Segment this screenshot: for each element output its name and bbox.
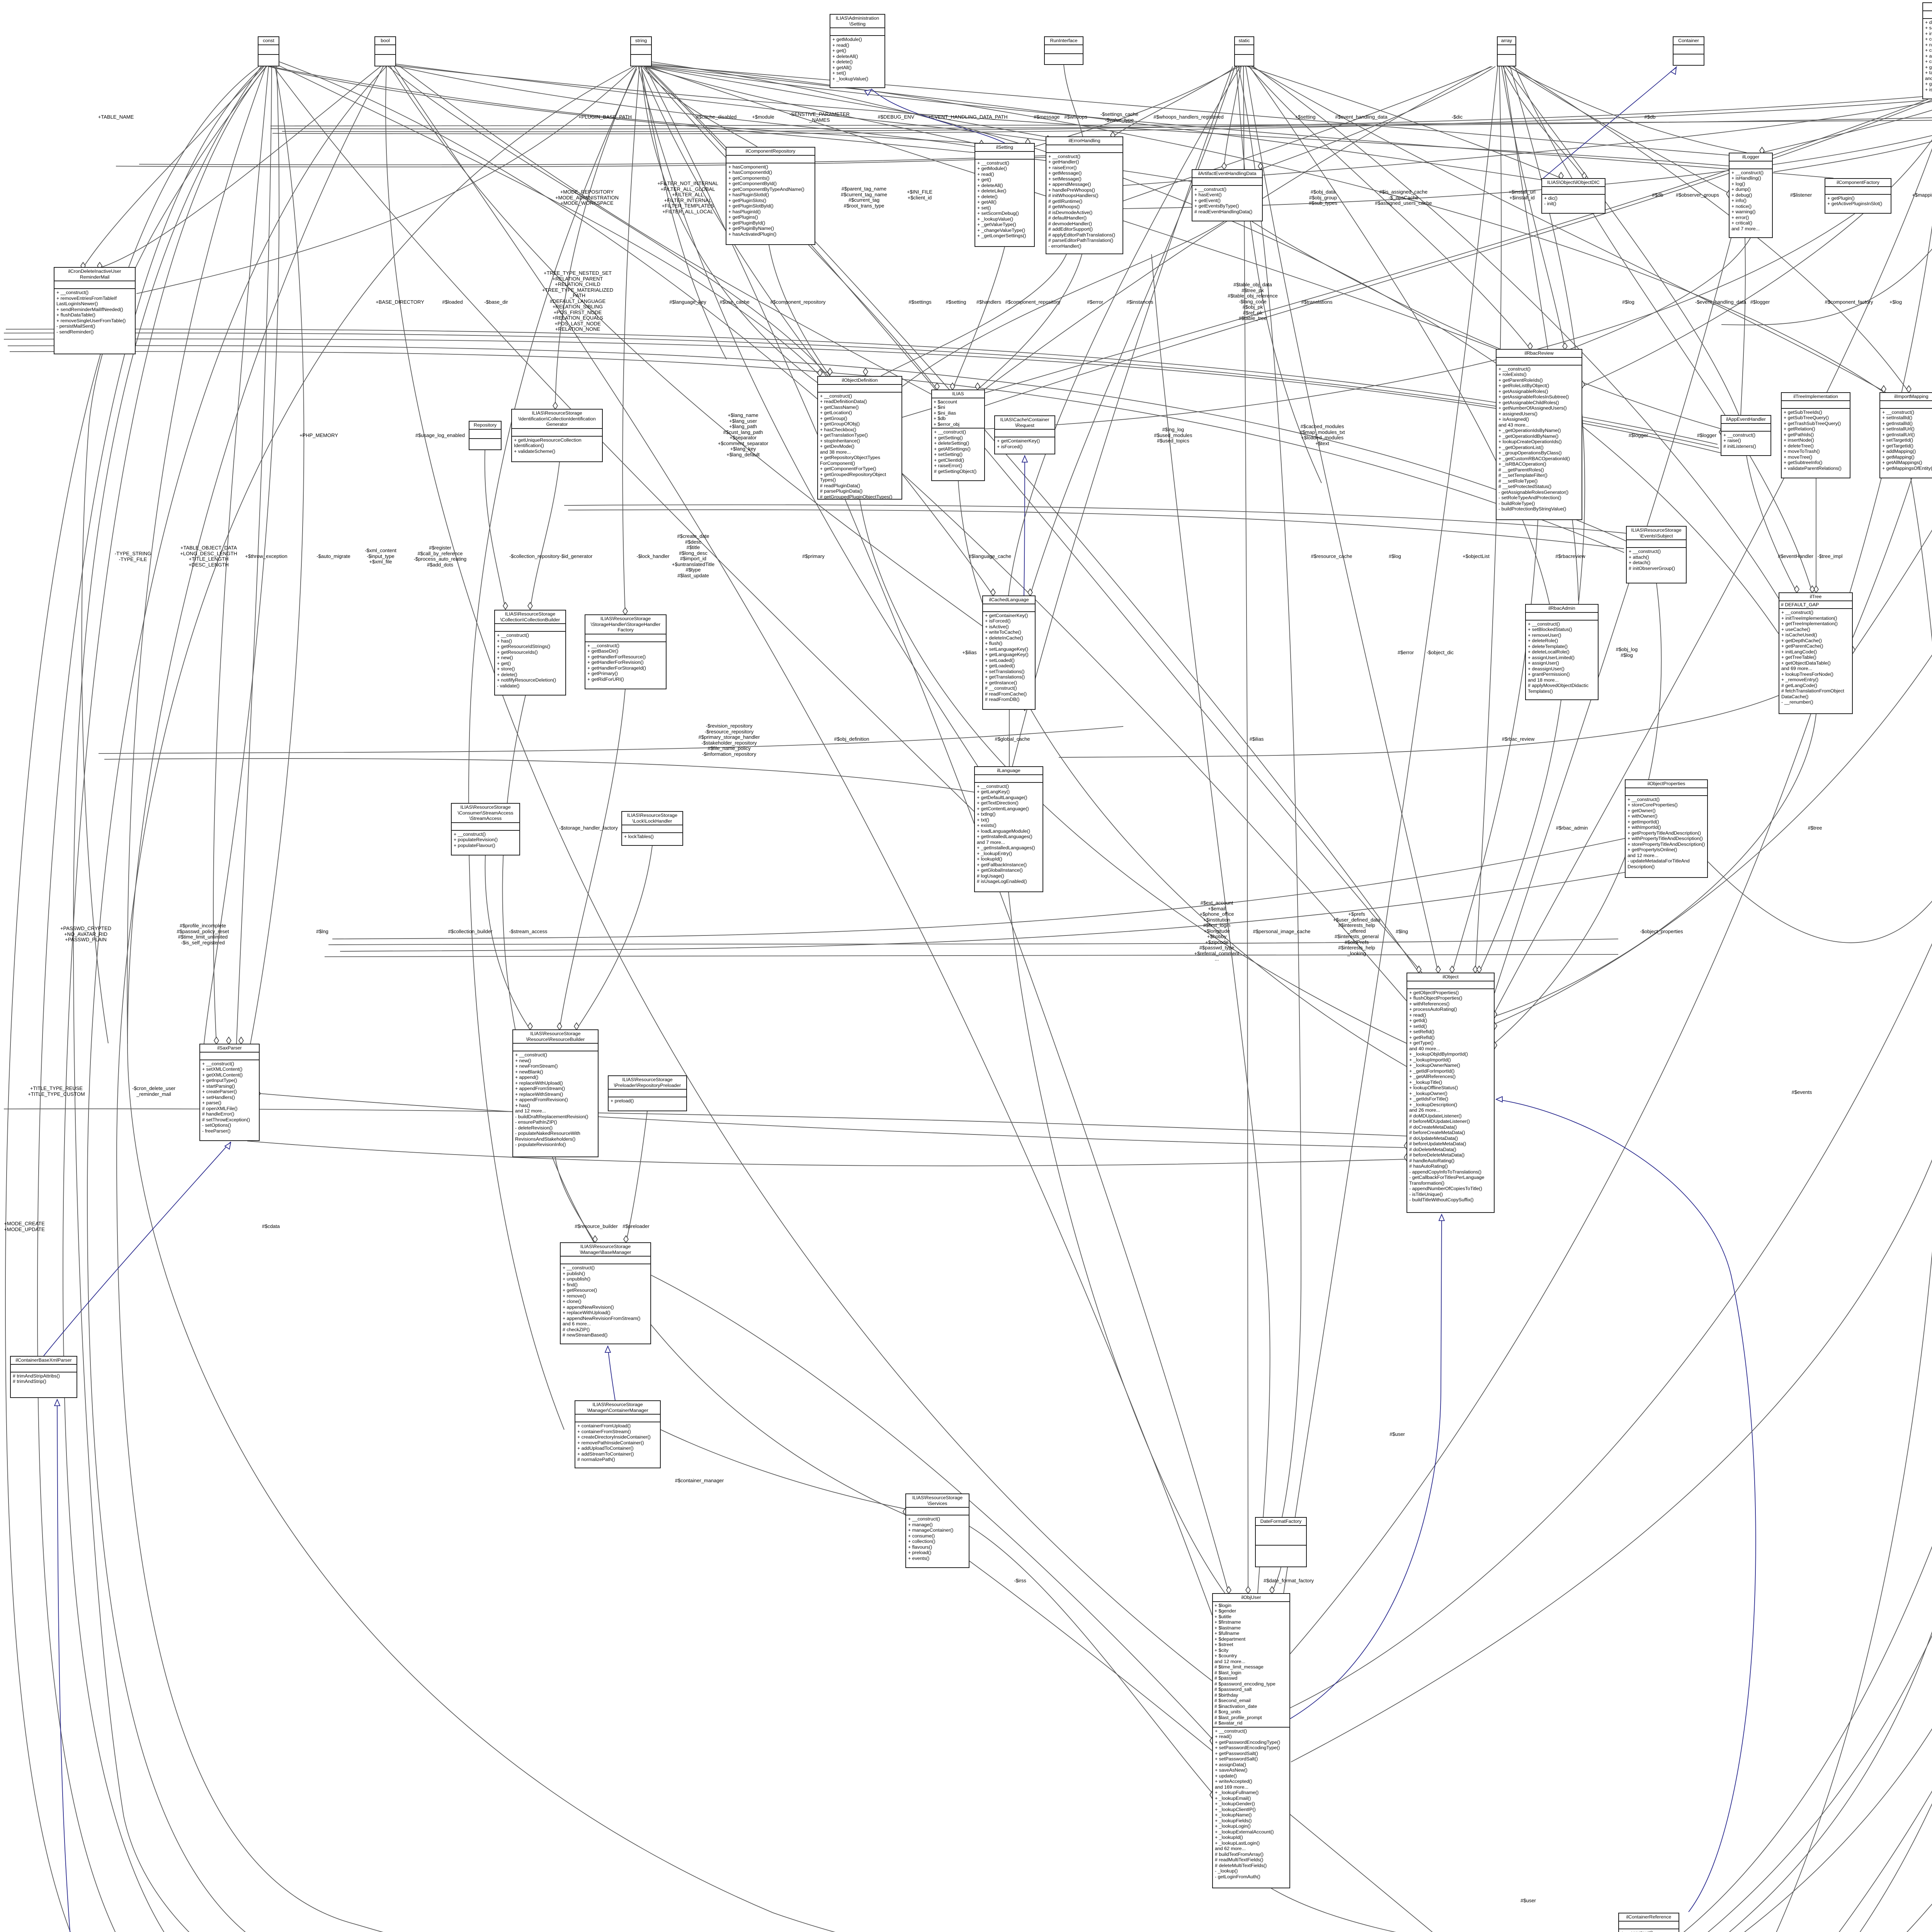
wire — [1250, 66, 1549, 604]
wire — [645, 66, 981, 145]
wire — [646, 66, 1055, 138]
wire — [1284, 66, 1498, 1593]
class ilRbacReview — [1496, 349, 1582, 520]
wire — [104, 759, 974, 792]
node label +BASE_DIRECTORY — [376, 299, 424, 305]
node label -$id_generator — [560, 554, 593, 560]
node label #$whoops — [1064, 114, 1087, 120]
node label +PHP_MEMORY — [299, 433, 338, 439]
wire — [325, 954, 1618, 957]
wire — [485, 450, 505, 610]
wire — [1689, 1159, 1932, 1932]
wire — [1236, 66, 1321, 483]
node label #$user — [1520, 1898, 1536, 1904]
node label +$log — [1889, 299, 1902, 305]
node label #$lng_log — [1154, 427, 1192, 444]
node label #$ilias — [1250, 736, 1264, 742]
wire — [270, 116, 1932, 129]
class ILIAS ResourceStorage — [451, 803, 520, 855]
node label #$eventHandler — [1778, 554, 1813, 560]
wire — [272, 100, 1924, 134]
wire — [1689, 1121, 1932, 1932]
node label #$observer_groups — [1676, 192, 1719, 198]
wire — [394, 66, 1212, 1615]
wire — [647, 66, 1419, 973]
node label #$component_repository — [770, 299, 825, 305]
wire — [1505, 66, 1739, 415]
wire — [1514, 65, 1812, 592]
node label #$component_factory — [1825, 299, 1873, 305]
node label #$table_obj_data — [1228, 282, 1277, 321]
wire — [1252, 221, 1721, 429]
wire — [1689, 478, 1932, 1932]
class static — [1234, 36, 1254, 66]
wire — [502, 696, 905, 1515]
wire — [1123, 99, 1932, 185]
wire — [1012, 66, 1233, 766]
wire — [44, 1142, 231, 1356]
wire — [644, 65, 1422, 973]
wire — [1271, 1888, 1618, 1932]
wire — [1475, 66, 1501, 973]
node label #$cached_modules — [1299, 424, 1345, 446]
wire — [391, 65, 976, 147]
node label #$handlers — [976, 299, 1001, 305]
class ILIAS ResourceStorage — [512, 1029, 599, 1157]
wire — [1679, 66, 1932, 1932]
wire — [648, 66, 1543, 180]
node label #$obj_definition — [834, 736, 869, 742]
wire — [952, 247, 1005, 389]
node label #$cdata — [262, 1224, 280, 1230]
node label +TREE_TYPE_NESTED_SET — [542, 270, 613, 338]
wire — [1243, 66, 1248, 1593]
wire — [1291, 68, 1932, 1762]
wire — [1495, 238, 1731, 993]
wire — [1503, 66, 1584, 178]
wire — [661, 1430, 905, 1509]
node label #$lng — [1396, 929, 1408, 935]
class ilRbacAdmin — [1525, 604, 1599, 700]
node label #$cache_disabled — [696, 114, 737, 120]
class ILIAS — [931, 389, 985, 481]
class ilLogger — [1729, 153, 1773, 238]
wire — [340, 869, 1642, 951]
node label #$error — [1087, 299, 1103, 305]
node label +TABLE_NAME — [98, 114, 134, 120]
wire — [73, 66, 1610, 1932]
wire — [328, 939, 1618, 945]
class Repository — [469, 421, 502, 450]
node label #$component_repository — [1005, 299, 1060, 305]
class ilDBInterface — [1922, 2, 1932, 99]
wire — [1512, 66, 1909, 392]
class DateFormatFactory — [1255, 1517, 1307, 1567]
wire — [1064, 65, 1083, 136]
wire — [1123, 66, 1932, 209]
wire — [1009, 892, 1225, 1593]
node label -$event_handling_data — [1695, 299, 1746, 305]
node label #$parent_tag_name — [841, 186, 887, 209]
node label #$language_cache — [969, 554, 1011, 560]
class ILIAS ResourceStorage — [494, 610, 566, 696]
class ilLanguage — [974, 766, 1043, 892]
wire — [6, 329, 1718, 444]
wire — [1509, 66, 1729, 193]
node label #$translations — [1301, 299, 1333, 305]
wire — [1495, 99, 1932, 1012]
wire — [236, 66, 272, 1044]
wire — [1290, 99, 1932, 1654]
node label #$ext_account — [1194, 900, 1240, 962]
wire — [1024, 455, 1025, 595]
wire — [332, 835, 1642, 939]
wire — [127, 66, 266, 1044]
wire — [642, 66, 757, 147]
+TABLE_NAME edge — [83, 66, 264, 268]
node label +MODE_CREATE — [4, 1221, 45, 1232]
node label #$resource_builder — [575, 1224, 617, 1230]
wire — [641, 66, 993, 595]
wire — [1510, 66, 1585, 604]
wire — [958, 481, 1406, 1066]
wire — [1508, 66, 1747, 153]
node label #$loaded — [442, 299, 463, 305]
class array — [1497, 36, 1516, 66]
node label +$throw_exception — [245, 554, 287, 560]
wire — [1224, 66, 1241, 169]
wire — [1479, 700, 1561, 973]
wire — [638, 66, 980, 769]
wire — [644, 66, 937, 389]
node label #$tree — [1808, 825, 1822, 831]
wire — [1569, 238, 1750, 350]
node label #$resource_cache — [1311, 554, 1352, 560]
wire — [282, 97, 1922, 132]
class RunInterface — [1044, 36, 1083, 65]
wire — [1009, 710, 1010, 766]
wire — [266, 66, 987, 144]
node label #$primary — [802, 554, 825, 560]
wire — [485, 855, 530, 1029]
class ilTreeImplementation — [1781, 392, 1850, 478]
wire — [651, 62, 1779, 634]
node label #$language_key — [669, 299, 706, 305]
wire — [1495, 583, 1662, 1043]
node label #$rbac_admin — [1556, 825, 1588, 831]
class ilErrorHandling — [1046, 136, 1123, 254]
node label +TABLE_OBJECT_DATA — [180, 545, 237, 568]
wire — [651, 1275, 1212, 1739]
wire — [128, 66, 1618, 1932]
node label -TYPE_STRING — [115, 551, 151, 562]
node label +$lang_name — [718, 413, 768, 457]
class ilComponentRepository — [726, 147, 815, 245]
wire — [648, 66, 1503, 352]
node label +$module — [752, 114, 774, 120]
node label -$dic — [1452, 114, 1463, 120]
node label +$mappings — [1912, 192, 1932, 198]
wire — [57, 1400, 1610, 1932]
wire — [272, 65, 974, 811]
node label #$date_format_factory — [1264, 1578, 1314, 1584]
node label +TITLE_TYPE_REUSE — [28, 1086, 85, 1097]
node label #$obj_log — [1616, 647, 1638, 658]
class ILIAS ResourceStorage — [511, 409, 603, 462]
class ilImportMapping — [1879, 392, 1932, 478]
wire — [1582, 99, 1932, 386]
wire — [645, 66, 1229, 1593]
wire — [641, 69, 726, 359]
class ILIAS Cache Container — [994, 415, 1055, 454]
node label #$rbacreview — [1555, 554, 1585, 560]
wire — [388, 66, 829, 377]
wire — [1774, 68, 1932, 172]
wire — [1030, 66, 1235, 595]
wire — [469, 69, 637, 1430]
wire — [1247, 66, 1561, 178]
wire — [1708, 66, 1932, 943]
wire — [881, 254, 1066, 376]
node label #$global_cache — [995, 736, 1030, 742]
wire — [250, 66, 304, 1044]
wire — [1679, 66, 1932, 1932]
node label #$db — [1652, 192, 1663, 198]
node label -$settings_cache — [1100, 112, 1138, 123]
wire — [1747, 456, 1797, 592]
wire — [555, 66, 637, 409]
wire — [1543, 66, 1677, 178]
wire — [386, 66, 1212, 1681]
class ILIAS ResourceStorage — [1626, 526, 1687, 583]
class ILIAS ResourceStorage — [560, 1242, 651, 1344]
wire — [622, 66, 639, 614]
class ilCachedLanguage — [982, 595, 1036, 710]
wire — [82, 66, 267, 1043]
class ILIAS ResourceStorage — [575, 1400, 661, 1468]
node label +EVENT_HANDLING_DATA_PATH — [928, 114, 1007, 120]
wire — [1260, 66, 1495, 169]
wire — [391, 65, 1731, 166]
wire — [4, 1109, 1406, 1136]
wire — [564, 505, 1626, 533]
node label +$ilias — [962, 650, 976, 656]
wire — [560, 689, 625, 1029]
node label #$logger — [1750, 299, 1770, 305]
node label #$db — [1645, 114, 1656, 120]
node label #$error — [1398, 650, 1414, 656]
class ILIAS ResourceStorage — [585, 614, 667, 689]
wire — [969, 1561, 1610, 1932]
node label #$user — [1389, 1432, 1405, 1437]
wire — [1679, 1198, 1932, 1932]
node label -$irss — [1014, 1578, 1026, 1584]
wire — [63, 66, 1610, 1932]
node label #$use_cache — [719, 299, 749, 305]
wire — [1853, 99, 1932, 638]
wire — [400, 66, 931, 394]
wire — [87, 66, 1610, 1932]
wire — [568, 510, 1624, 549]
wire — [1853, 66, 1932, 653]
wire — [10, 352, 1624, 553]
wire — [871, 89, 1005, 143]
node label -$xml_content — [365, 548, 396, 565]
node label -$stream_access — [509, 929, 548, 935]
wire — [1251, 65, 1781, 603]
wire — [626, 1111, 647, 1242]
wire — [1151, 254, 1270, 1593]
node label +$INI_FILE — [907, 189, 932, 201]
node label -$cron_delete_user — [132, 1086, 175, 1097]
node label +$install_url — [1509, 189, 1536, 201]
wire — [260, 1094, 1406, 1148]
class ilObject — [1406, 973, 1495, 1213]
wire — [393, 64, 1047, 141]
node label +$objectList — [1463, 554, 1490, 560]
wire — [1721, 97, 1932, 325]
class ILIAS ResourceStorage — [621, 811, 683, 846]
wire — [99, 726, 1123, 753]
class ilTree — [1779, 592, 1853, 714]
wire — [1009, 66, 1240, 595]
node label #$personal_image_cache — [1253, 929, 1311, 935]
class ilSetting — [975, 143, 1035, 247]
node label -$collection_repository — [509, 554, 560, 560]
wire — [645, 66, 1833, 178]
wire — [577, 846, 652, 1029]
wire — [1123, 66, 1492, 201]
wire — [608, 1347, 615, 1400]
wire — [1290, 1214, 1442, 1719]
wire — [279, 62, 1406, 1001]
class ilAppEventHandler — [1721, 415, 1771, 456]
wire — [1113, 66, 1236, 136]
node label #$container_manager — [675, 1478, 724, 1484]
wire — [641, 66, 820, 384]
wire — [116, 155, 1113, 167]
wire — [117, 66, 1610, 1932]
class ilContainerBaseXmlParser — [10, 1356, 77, 1398]
node label +MODE_REPOSITORY — [555, 189, 619, 206]
node label #$log — [1389, 554, 1401, 560]
node label -$storage_handler_factory — [559, 825, 618, 831]
wire — [978, 254, 1082, 389]
node label #$register — [414, 545, 467, 568]
wire — [1238, 66, 1301, 1517]
node label -$auto_migrate — [316, 554, 350, 560]
node label #$logger — [1629, 433, 1648, 439]
class ilObjectDefinition — [817, 376, 902, 500]
wire — [4, 339, 1721, 453]
node label #$obj_data — [1309, 189, 1337, 206]
class ILIAS ResourceStorage — [608, 1075, 687, 1111]
class ilCronDeleteInactiveUser — [54, 267, 136, 354]
wire — [651, 64, 1884, 392]
class ilArtifactEventHandlingData — [1192, 169, 1263, 221]
wire — [1034, 66, 1239, 147]
node label +PLUGIN_BASE_PATH — [578, 114, 632, 120]
node label -$tree_impl — [1817, 554, 1842, 560]
wire — [390, 66, 982, 626]
node label #$log — [1622, 299, 1634, 305]
wire — [1272, 1567, 1281, 1593]
class ILIAS ResourceStorage — [905, 1493, 969, 1568]
wire — [530, 462, 560, 610]
wire — [136, 66, 636, 294]
node label +$prefs — [1333, 912, 1381, 956]
wire — [1452, 520, 1538, 973]
wire — [1689, 65, 1932, 1932]
wire — [1816, 478, 1816, 592]
wire — [1249, 66, 1530, 349]
node label -$object_properties — [1640, 929, 1683, 935]
class Container — [1673, 36, 1704, 66]
node label +PASSWD_CRYPTED — [60, 926, 111, 943]
class const — [258, 36, 279, 66]
wire — [1679, 66, 1932, 1932]
node label #$settings — [908, 299, 931, 305]
class ilComponentFactory — [1825, 178, 1891, 214]
wire — [4, 333, 1719, 448]
class bool — [374, 36, 396, 66]
node label #$create_date — [672, 534, 714, 578]
node label #$listener — [1790, 192, 1812, 198]
wire — [1504, 66, 1578, 601]
class ilObjectProperties — [1625, 779, 1708, 878]
node label -$object_dic — [1427, 650, 1454, 656]
wire — [1250, 66, 1886, 392]
node label -$lock_handler — [636, 554, 669, 560]
class ilSaxParser — [199, 1044, 260, 1141]
class ILIAS Object ilObjectDIC — [1541, 178, 1605, 214]
node label #$whoops_handlers_registered — [1153, 114, 1223, 120]
class ILIAS Administration — [830, 14, 885, 88]
node label #$instances — [1126, 299, 1153, 305]
wire — [985, 214, 1855, 429]
wire — [1290, 66, 1932, 1708]
node label +FILTER_NOT_INTERNAL — [657, 181, 718, 214]
node label #$lng — [316, 929, 328, 935]
node label -$base_dir — [484, 299, 508, 305]
node label #$message — [1034, 114, 1060, 120]
node label #$rbac_review — [1502, 736, 1535, 742]
wire — [277, 65, 820, 376]
node label #$events — [1792, 1090, 1812, 1095]
wire — [860, 500, 1406, 1043]
wire — [247, 1141, 1406, 1166]
wire — [1059, 696, 1779, 757]
node label -SENSTIVE_PARAMETER — [789, 112, 850, 123]
node label #$profile_incomplete — [177, 923, 229, 946]
class string — [630, 36, 652, 66]
node label #$setting — [946, 299, 966, 305]
wire — [983, 66, 1491, 390]
node label #$usage_log_enabled — [415, 433, 465, 439]
wire — [1502, 66, 1565, 349]
node label #$DEBUG_ENV — [878, 114, 915, 120]
wire — [902, 99, 1928, 417]
wire — [1496, 1099, 1756, 1912]
node label #$logger — [1697, 433, 1717, 439]
wire — [270, 120, 1932, 126]
wire — [969, 1526, 1212, 1793]
wire — [1689, 66, 1932, 1932]
wire — [985, 99, 1932, 406]
wire — [8, 345, 1626, 541]
wire — [1741, 238, 1745, 415]
wire — [1246, 66, 1438, 973]
